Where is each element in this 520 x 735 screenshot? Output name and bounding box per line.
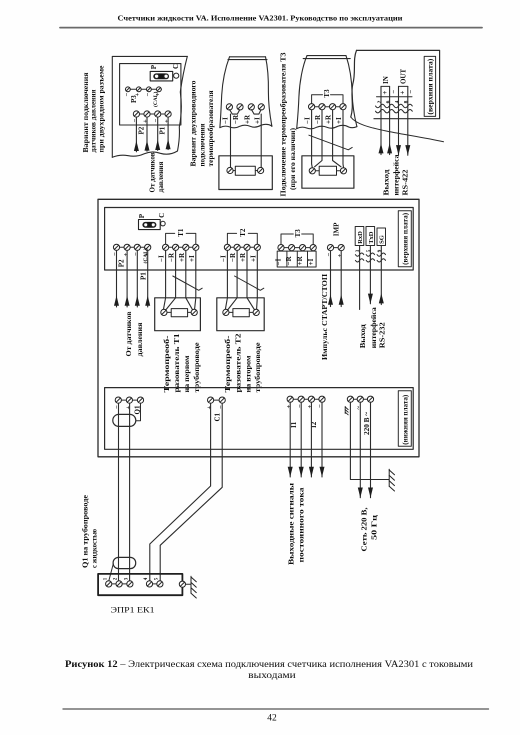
svg-text:+: + bbox=[142, 119, 149, 123]
wire mains earth bbox=[350, 402, 389, 479]
lower plate board box bbox=[105, 388, 414, 450]
screw terminal P1+ bbox=[165, 111, 171, 117]
jumper selector (P/C) central bbox=[139, 220, 161, 230]
svg-text:+I: +I bbox=[249, 255, 257, 262]
alternative wiring strike line (T2) bbox=[235, 276, 264, 290]
svg-text:+: + bbox=[143, 253, 150, 257]
wire T1 +R bbox=[186, 251, 193, 311]
screw I2+ bbox=[308, 396, 314, 402]
wire T1 -R bbox=[165, 251, 175, 311]
wire +R to T3 box bbox=[333, 110, 341, 167]
note: Термопреобразователь Т1 на первом трубопроводе bbox=[163, 333, 201, 393]
svg-text:+I: +I bbox=[307, 258, 315, 265]
svg-text:−: − bbox=[133, 252, 140, 256]
svg-text:подключения: подключения bbox=[199, 123, 207, 166]
terminal +I (two-wire) bbox=[258, 104, 264, 110]
stub right bbox=[337, 170, 341, 172]
RTD T1 housing box bbox=[155, 298, 201, 331]
svg-text:SG: SG bbox=[379, 235, 386, 244]
T1 terminal left bbox=[161, 309, 167, 315]
svg-text:трубопроводе: трубопроводе bbox=[193, 343, 201, 393]
terminal +R (T3 blob) bbox=[330, 104, 336, 110]
svg-text:−: − bbox=[296, 404, 303, 408]
screw T1 -R bbox=[173, 244, 179, 250]
wire left (two-wire RTD) bbox=[230, 114, 232, 167]
svg-text:(верхняя плата): (верхняя плата) bbox=[401, 212, 409, 265]
svg-text:+R: +R bbox=[243, 114, 251, 124]
svg-text:+: + bbox=[134, 93, 141, 97]
terminal -I (T3 blob) bbox=[309, 104, 315, 110]
arrows RS-422 bbox=[379, 143, 384, 153]
terminal rail Q1 bbox=[118, 399, 140, 401]
svg-text:От датчиков: От датчиков bbox=[149, 152, 157, 192]
svg-text:−R: −R bbox=[232, 114, 240, 124]
svg-text:−I: −I bbox=[158, 255, 166, 262]
svg-text:Выход: Выход bbox=[359, 324, 367, 349]
RxD label box bbox=[355, 227, 364, 246]
svg-text:C: C bbox=[172, 64, 180, 69]
T2 group bracket bbox=[227, 233, 257, 244]
svg-text:−: − bbox=[114, 405, 121, 409]
wire T2 -R bbox=[227, 251, 237, 311]
screw mains earth bbox=[347, 396, 353, 402]
svg-text:5: 5 bbox=[155, 577, 160, 580]
terminal rail (top-left P row) bbox=[136, 113, 168, 115]
svg-text:Т3: Т3 bbox=[294, 229, 302, 238]
wire right (two-wire RTD) bbox=[260, 114, 262, 167]
wire mains N bbox=[370, 402, 372, 497]
terminal -R (two-wire) bbox=[237, 104, 243, 110]
svg-text:+R: +R bbox=[178, 252, 186, 262]
svg-text:−: − bbox=[407, 90, 415, 94]
svg-text:Выход: Выход bbox=[382, 169, 390, 196]
svg-text:P2: P2 bbox=[138, 126, 146, 134]
pad P3+ bbox=[136, 87, 141, 92]
svg-text:+: + bbox=[122, 253, 129, 257]
svg-text:−: − bbox=[326, 253, 333, 257]
wire P1- bbox=[136, 251, 138, 308]
terminal rail T2 bbox=[227, 246, 257, 248]
terminal -I (two-wire) bbox=[226, 104, 232, 110]
screw C1+ bbox=[208, 397, 214, 403]
svg-text:Q1 на трубопроводе: Q1 на трубопроводе bbox=[82, 495, 90, 568]
T2 terminal left bbox=[223, 309, 229, 315]
screw terminal P2- bbox=[133, 111, 139, 117]
labels T1 -I -R +R +I bbox=[158, 252, 196, 262]
cable shield oval (upper) bbox=[113, 414, 136, 426]
wire C1+ bbox=[150, 403, 211, 581]
svg-text:(нижняя плата): (нижняя плата) bbox=[401, 394, 409, 445]
svg-text:разователь Т1: разователь Т1 bbox=[173, 333, 181, 393]
terminal +I (T3 blob) bbox=[340, 104, 346, 110]
terminal rail IMP bbox=[331, 247, 342, 249]
screw T2 +R bbox=[244, 244, 250, 250]
labels P2 (CAL) P1 and signs (central) bbox=[112, 248, 150, 280]
svg-text:−: − bbox=[390, 90, 398, 94]
labels of pad row bbox=[123, 92, 161, 107]
arrows mains bbox=[358, 488, 363, 498]
labels T3 -I -R +R +I (central) bbox=[275, 255, 315, 265]
T3 RTD terminal left bbox=[309, 168, 315, 174]
svg-text:RS-422: RS-422 bbox=[401, 169, 409, 196]
note: Вариант подключения датчиков давления при двухрядном разъеме bbox=[82, 65, 106, 152]
screw T3 +I bbox=[310, 245, 316, 251]
wire IMP- bbox=[330, 251, 332, 307]
T3 socket cell box bbox=[277, 251, 316, 267]
svg-text:−: − bbox=[144, 93, 151, 97]
terminal rail EPR 1-3 bbox=[109, 583, 130, 585]
screw T3 +R bbox=[300, 245, 306, 251]
svg-text:+I: +I bbox=[188, 255, 196, 262]
wire Q1+ bbox=[129, 403, 131, 581]
screw Q1+ bbox=[126, 397, 132, 403]
stub right bbox=[255, 170, 257, 172]
header rule bbox=[60, 27, 482, 29]
arrow TxD (down) bbox=[368, 294, 373, 304]
wire RS-422 OUT- bbox=[407, 86, 409, 155]
torn connector piece outline (T3 block) bbox=[297, 56, 357, 129]
svg-text:+: + bbox=[163, 119, 170, 123]
terminal -R (T3 blob) bbox=[319, 104, 325, 110]
svg-text:42: 42 bbox=[267, 713, 277, 723]
svg-text:IMP: IMP bbox=[332, 222, 340, 236]
svg-text:термопреобразователя: термопреобразователя bbox=[207, 90, 215, 166]
wire from P2- sensor bbox=[135, 117, 137, 152]
pin numbers 2 6 4 8 bbox=[377, 100, 410, 103]
arrows current outputs bbox=[288, 467, 293, 477]
TxD label box bbox=[366, 227, 375, 246]
wire P1+ bbox=[147, 251, 149, 308]
label strip (верхняя плата) RS-422 block bbox=[424, 56, 435, 116]
svg-text:−R: −R bbox=[168, 252, 176, 262]
screw T3 -R bbox=[289, 245, 295, 251]
RTD sensing resistor bbox=[235, 166, 255, 175]
RTD housing box (two-wire) bbox=[219, 156, 272, 190]
torn board outline (top-left block) bbox=[112, 56, 187, 157]
terminal rail mains bbox=[350, 398, 370, 400]
signs + - + - (RS-422) bbox=[381, 90, 415, 95]
terminal 2 bbox=[116, 581, 122, 587]
svg-text:Термопреоб-: Термопреоб- bbox=[224, 335, 232, 393]
RTD terminal right bbox=[258, 167, 264, 173]
labels Q1 bbox=[114, 405, 142, 415]
RTD terminal left bbox=[227, 167, 233, 173]
T3 RTD housing box bbox=[302, 156, 354, 188]
T2 sensing resistor bbox=[233, 309, 249, 317]
svg-text:Счетчики жидкости VA. Исполнен: Счетчики жидкости VA. Исполнение VA2301.… bbox=[118, 14, 404, 23]
svg-text:9: 9 bbox=[378, 249, 383, 252]
svg-text:Рисунок 12 – Электрическая схе: Рисунок 12 – Электрическая схема подключ… bbox=[65, 660, 473, 670]
wire RS-422 IN- bbox=[389, 86, 391, 154]
svg-text:Вариант двухпроводного: Вариант двухпроводного bbox=[190, 80, 198, 167]
svg-text:От датчиков: От датчиков bbox=[125, 311, 133, 356]
svg-text:Импульс СТАРТ/СТОП: Импульс СТАРТ/СТОП bbox=[321, 273, 329, 360]
RS-422 terminal row line bbox=[377, 96, 413, 98]
screw I1+ bbox=[287, 396, 293, 402]
T1 group bracket bbox=[166, 233, 196, 244]
svg-text:интерфейса: интерфейса bbox=[392, 154, 400, 196]
T1 sensing resistor bbox=[171, 309, 187, 317]
terminal rail (central P row) bbox=[117, 246, 148, 248]
svg-text:−: − bbox=[217, 405, 224, 409]
SG label box bbox=[377, 228, 386, 246]
terminal rail EPR 4-5 bbox=[150, 583, 160, 585]
screw T3 -I bbox=[278, 245, 284, 251]
footer rule bbox=[63, 708, 489, 710]
P3/(CAL) pad row link wire bbox=[125, 88, 161, 90]
svg-text:+: + bbox=[206, 406, 213, 410]
wire T1 -I bbox=[164, 251, 166, 310]
T1 terminal right bbox=[191, 309, 197, 315]
svg-text:P2: P2 bbox=[117, 259, 125, 267]
stub left bbox=[315, 170, 319, 172]
wire -R to T3 box bbox=[315, 110, 322, 167]
svg-text:~: ~ bbox=[356, 406, 363, 410]
svg-text:Термопреоб-: Термопреоб- bbox=[163, 335, 171, 393]
torn connector piece outline (two-wire variant) bbox=[220, 57, 272, 128]
wire P2+ bbox=[126, 251, 128, 308]
svg-text:Т3: Т3 bbox=[323, 89, 331, 98]
screw terminal P2+ bbox=[144, 111, 150, 117]
svg-text:6: 6 bbox=[386, 100, 392, 103]
stub left bbox=[233, 170, 235, 172]
svg-text:P1: P1 bbox=[139, 272, 147, 280]
jumper link +R to +I bbox=[252, 110, 262, 115]
note: Сеть 220 В, 50 Гц bbox=[360, 507, 378, 551]
labels of screw row P2/P1 bbox=[132, 119, 171, 135]
svg-text:+I: +I bbox=[335, 117, 343, 124]
upper plate board box bbox=[105, 208, 414, 271]
earth label glyph bbox=[345, 407, 348, 415]
terminal 1 bbox=[106, 581, 112, 587]
wire Q1- bbox=[118, 403, 120, 581]
wire RS-422 IN+ bbox=[380, 86, 382, 154]
note: Вариант двухпроводного подключения термопреобразователя bbox=[190, 80, 216, 167]
pad CAL+ bbox=[157, 87, 162, 92]
svg-text:P: P bbox=[150, 64, 158, 69]
stubs T1 bbox=[167, 311, 191, 313]
wire mains L bbox=[359, 402, 361, 497]
svg-text:при двухрядном разъеме: при двухрядном разъеме bbox=[98, 65, 106, 152]
svg-text:ЭПР1 ЕК1: ЭПР1 ЕК1 bbox=[111, 605, 155, 615]
T3 group bracket (central) bbox=[281, 234, 313, 244]
svg-text:+: + bbox=[285, 405, 292, 409]
wire T2 -I bbox=[225, 251, 227, 310]
wire T2 +I bbox=[256, 251, 259, 310]
svg-text:интерфейса: интерфейса bbox=[370, 307, 378, 349]
pad P3- bbox=[126, 87, 131, 92]
terminal 5 bbox=[157, 581, 163, 587]
svg-text:−I: −I bbox=[304, 117, 312, 124]
wire I1+ bbox=[289, 402, 291, 477]
svg-text:50 Гц: 50 Гц bbox=[371, 515, 379, 540]
svg-text:8: 8 bbox=[404, 100, 410, 103]
svg-text:5: 5 bbox=[367, 249, 372, 252]
svg-text:4: 4 bbox=[144, 577, 149, 580]
labels -I -R +R +I (two-wire blob) bbox=[221, 114, 261, 124]
screw T1 -I bbox=[163, 244, 169, 250]
note: Подключение термопреобразователя Т3 (при его наличии) bbox=[280, 52, 298, 197]
svg-text:(верхняя плата): (верхняя плата) bbox=[426, 58, 434, 115]
wire T2 +R bbox=[247, 251, 255, 311]
note: Выход интерфейса RS-422 bbox=[382, 154, 409, 196]
wire I2- bbox=[321, 402, 323, 477]
svg-text:(при его наличии): (при его наличии) bbox=[289, 127, 297, 190]
svg-text:давления: давления bbox=[157, 161, 165, 192]
svg-text:+R: +R bbox=[325, 114, 333, 124]
wire TxD bbox=[369, 246, 371, 304]
screw T2 -R bbox=[234, 244, 240, 250]
screw I1- bbox=[298, 396, 304, 402]
break marks RS-232 wires bbox=[355, 253, 385, 262]
svg-text:+: + bbox=[125, 406, 132, 410]
shield bracket from Q1 terminal 3 bbox=[136, 403, 140, 420]
svg-text:выходами: выходами bbox=[248, 671, 296, 681]
svg-text:−I: −I bbox=[221, 117, 229, 124]
screw Q1- bbox=[115, 397, 121, 403]
labels C1 bbox=[206, 405, 225, 422]
svg-text:Сеть 220 В,: Сеть 220 В, bbox=[360, 507, 368, 551]
earth terminal bbox=[179, 581, 185, 587]
svg-text:+: + bbox=[399, 91, 407, 95]
jumper link -I to -R bbox=[230, 110, 240, 115]
stubs T2 bbox=[229, 311, 253, 313]
svg-text:на первом: на первом bbox=[183, 355, 191, 392]
wire RxD bbox=[359, 246, 361, 310]
terminal 3 bbox=[127, 581, 133, 587]
wire I1- bbox=[300, 402, 302, 477]
screw P2+ (central) bbox=[124, 244, 130, 250]
stub to chassis ground bbox=[186, 583, 192, 585]
arrow SG (up) bbox=[379, 293, 384, 303]
RTD T2 housing box bbox=[217, 298, 264, 331]
svg-text:с жидкостью: с жидкостью bbox=[91, 528, 99, 568]
svg-text:Вариант подключения: Вариант подключения bbox=[82, 72, 90, 152]
svg-text:+: + bbox=[381, 91, 389, 95]
instrument enclosure outer box bbox=[98, 199, 419, 457]
wire P2- bbox=[116, 251, 118, 308]
svg-text:трубопроводе: трубопроводе bbox=[254, 343, 262, 393]
svg-text:−I: −I bbox=[275, 258, 283, 265]
wire I2+ bbox=[310, 402, 312, 477]
bracket over OUT pair bbox=[399, 85, 408, 87]
terminal rail T1 bbox=[166, 246, 196, 248]
T3 group bracket bbox=[312, 95, 343, 104]
svg-text:4: 4 bbox=[394, 100, 400, 103]
terminal +R (two-wire) bbox=[248, 104, 254, 110]
svg-text:C1: C1 bbox=[213, 412, 221, 421]
svg-text:P: P bbox=[138, 213, 146, 218]
note: Выход интерфейса RS-232 bbox=[359, 307, 387, 349]
svg-text:RS-232: RS-232 bbox=[379, 322, 387, 349]
svg-text:−R: −R bbox=[314, 114, 322, 124]
svg-text:Выходные сигналы: Выходные сигналы bbox=[288, 482, 296, 565]
svg-text:+R: +R bbox=[239, 252, 247, 262]
cable break wavy lines (RS-422) bbox=[376, 104, 413, 107]
screw mains ~1 bbox=[357, 396, 363, 402]
svg-text:TxD: TxD bbox=[368, 231, 375, 244]
note: Термопреобразователь Т2 на втором трубопроводе bbox=[224, 333, 262, 393]
spare jumper pin C (central) bbox=[161, 221, 166, 226]
svg-text:+: + bbox=[307, 405, 314, 409]
svg-text:IN: IN bbox=[382, 76, 390, 84]
svg-text:давления: давления bbox=[136, 322, 144, 356]
terminal 4 bbox=[146, 581, 152, 587]
wire T1 +I bbox=[195, 251, 196, 310]
cable shield oval (lower) bbox=[113, 557, 136, 568]
wire from P1+ sensor bbox=[167, 117, 169, 149]
svg-text:Подключение термопреобразовате: Подключение термопреобразователя Т3 bbox=[280, 52, 288, 197]
screw P2- (central) bbox=[113, 244, 119, 250]
svg-text:постоянного тока: постоянного тока bbox=[297, 487, 305, 563]
svg-text:разователь Т2: разователь Т2 bbox=[235, 333, 243, 393]
note: Выходные сигналы постоянного тока bbox=[288, 482, 306, 565]
shield wire to terminal 1 bbox=[109, 564, 114, 581]
svg-text:3: 3 bbox=[124, 577, 129, 580]
terminal rail I1 I2 bbox=[290, 398, 322, 400]
alternative wiring strike line (T1) bbox=[173, 276, 202, 290]
alternative wiring strike line (T3) bbox=[309, 135, 352, 150]
wire IMP+ bbox=[340, 251, 342, 307]
torn upper-plate piece outline (RS-422) bbox=[351, 50, 444, 141]
labels I1 I2 bbox=[285, 404, 324, 428]
svg-text:2: 2 bbox=[377, 100, 383, 103]
screw T2 +I bbox=[254, 244, 260, 250]
arrows IMP bbox=[328, 295, 333, 305]
spare jumper pin C (open circle) bbox=[174, 73, 179, 78]
svg-text:на втором: на втором bbox=[244, 355, 252, 392]
svg-text:RxD: RxD bbox=[357, 231, 364, 244]
svg-text:−: − bbox=[153, 119, 160, 123]
chassis ground (mains) bbox=[389, 469, 394, 491]
screw mains ~2 bbox=[367, 396, 373, 402]
bracket over IN pair bbox=[381, 85, 390, 87]
screw IMP+ bbox=[338, 245, 344, 251]
svg-text:+R: +R bbox=[296, 255, 304, 265]
svg-text:3: 3 bbox=[356, 249, 361, 252]
wire C1- bbox=[160, 403, 222, 581]
wire -I to T3 box bbox=[311, 110, 314, 168]
terminal rail T3 bbox=[281, 247, 313, 249]
labels T2 -I -R +R +I bbox=[219, 252, 257, 262]
svg-text:−: − bbox=[112, 252, 119, 256]
T3 RTD terminal right bbox=[340, 168, 346, 174]
wire from P1- sensor bbox=[157, 117, 159, 150]
wire +I to T3 box bbox=[342, 110, 345, 168]
svg-text:OUT: OUT bbox=[399, 69, 407, 85]
jumper selector J1 (P/C) top-left block bbox=[150, 71, 173, 81]
inner board rect (top-left block) bbox=[120, 64, 181, 125]
screw P1- (central) bbox=[134, 244, 140, 250]
screw IMP- bbox=[327, 245, 333, 251]
arrows from pressure sensors (central) bbox=[114, 296, 119, 306]
T3 sensing resistor bbox=[319, 166, 336, 175]
chassis ground (transducer) bbox=[191, 576, 196, 598]
pad CAL- bbox=[147, 87, 152, 92]
wire SG bbox=[380, 246, 382, 305]
svg-text:P1: P1 bbox=[159, 126, 167, 134]
arrows (signals from pressure sensors) bbox=[134, 141, 139, 151]
svg-text:Т2: Т2 bbox=[239, 228, 247, 237]
screw C1- bbox=[219, 397, 225, 403]
svg-text:−R: −R bbox=[285, 255, 293, 265]
label strip (верхняя плата) central bbox=[398, 211, 411, 267]
screw terminal P1- bbox=[155, 111, 161, 117]
svg-text:−R: −R bbox=[229, 252, 237, 262]
terminal rail (T3 blob) bbox=[312, 106, 343, 108]
svg-text:C: C bbox=[158, 213, 166, 218]
screw T2 -I bbox=[224, 244, 230, 250]
